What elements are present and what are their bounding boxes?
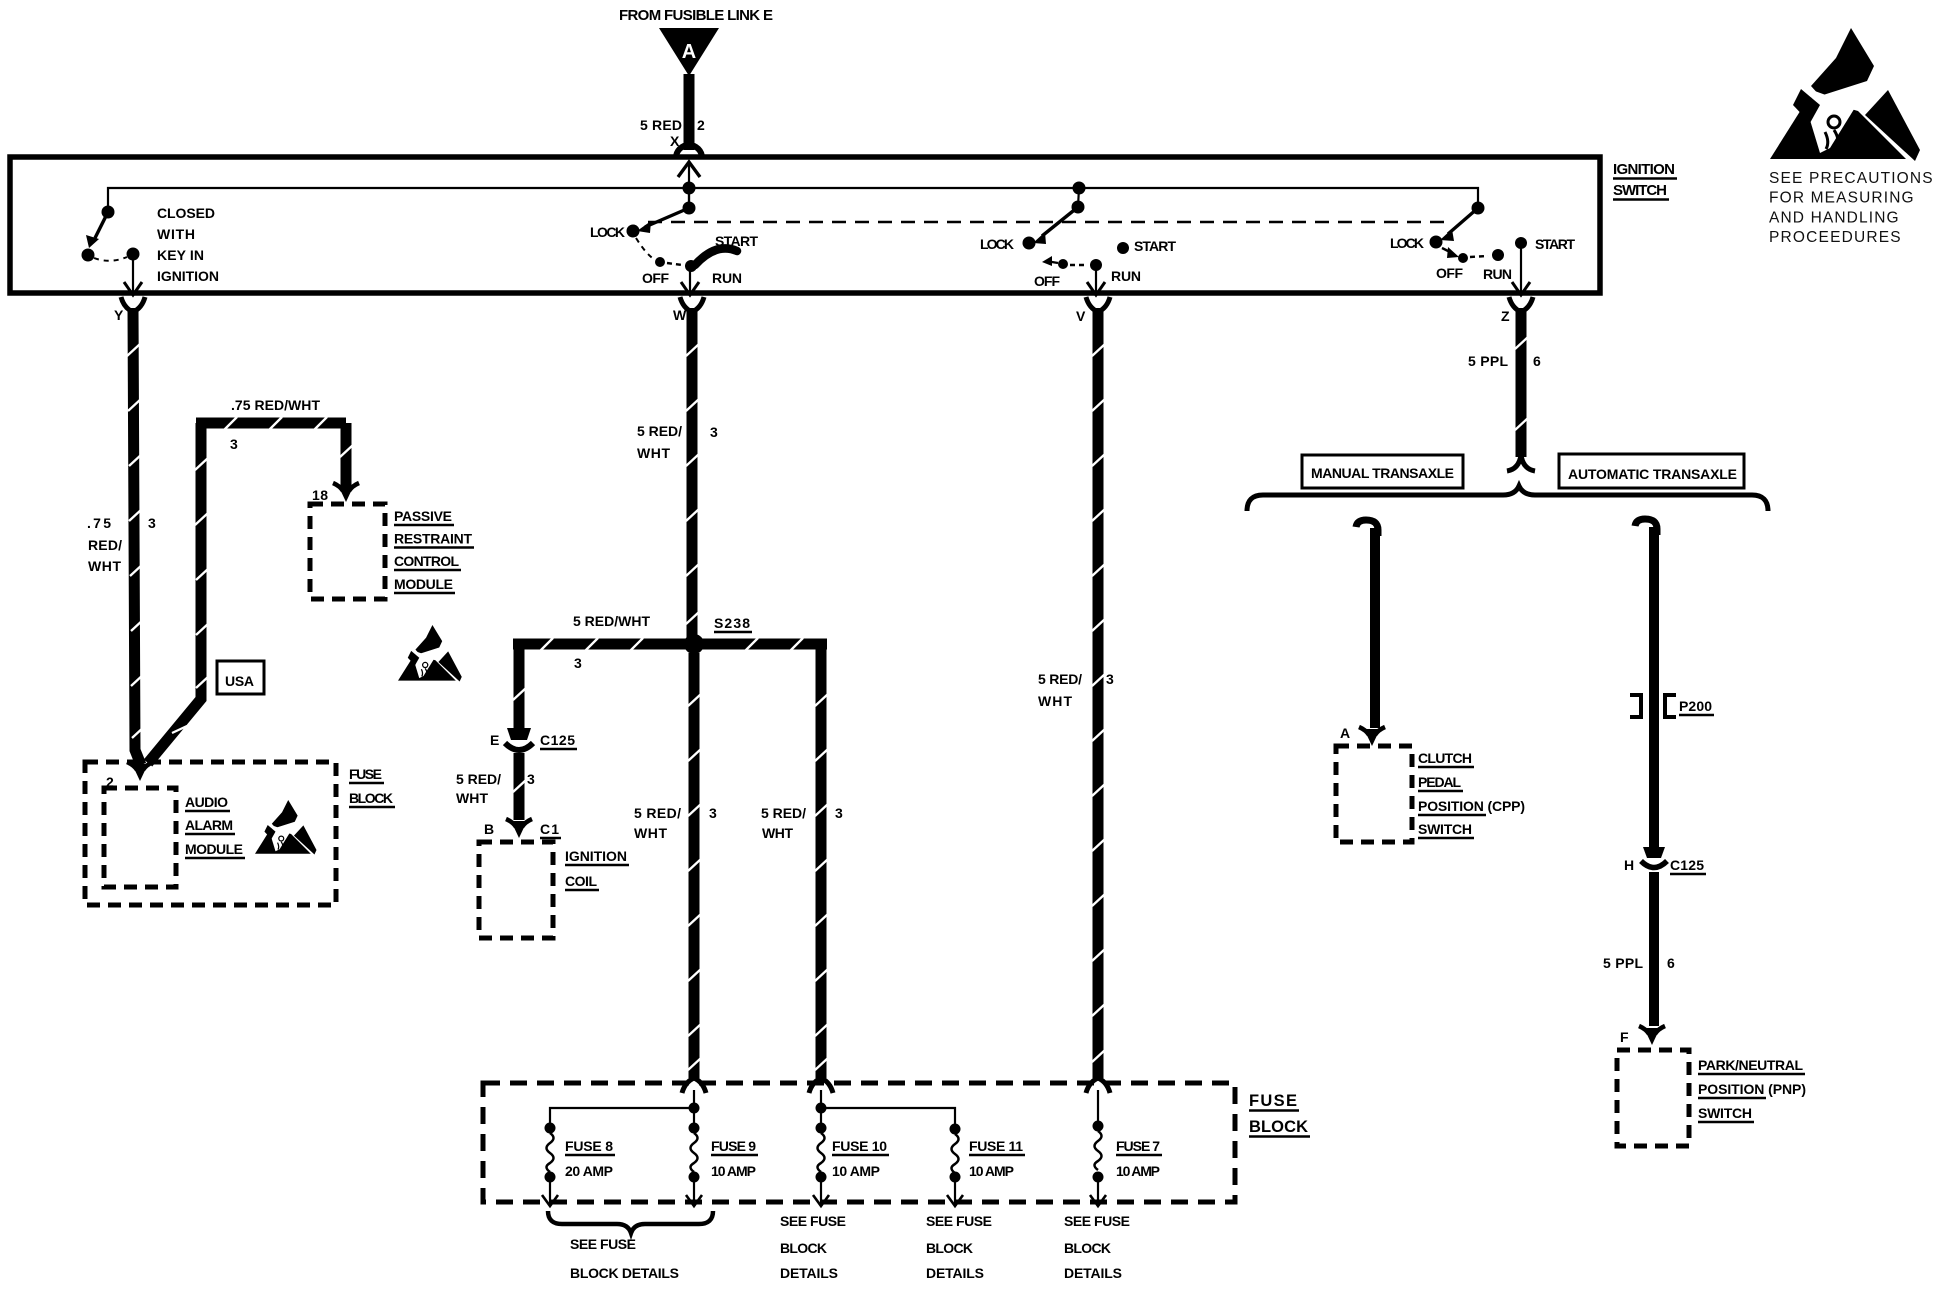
splice S238 bbox=[684, 634, 704, 654]
fuse F9 bbox=[686, 1123, 702, 1207]
fuse F11 bbox=[947, 1124, 963, 1207]
node: fuse 9 feed junction bbox=[689, 1103, 700, 1114]
fuse block label (audio alarm area) bbox=[349, 766, 395, 807]
audio alarm module label bbox=[185, 794, 245, 858]
svg-text:WHT: WHT bbox=[762, 825, 793, 841]
USA variant box label bbox=[217, 661, 264, 694]
svg-text:DETAILS: DETAILS bbox=[780, 1265, 838, 1281]
svg-text:IGNITION: IGNITION bbox=[565, 848, 627, 864]
LOCK contact dot bbox=[627, 225, 640, 238]
RUN contact dot bbox=[685, 260, 697, 272]
wire segment to connector E bbox=[513, 644, 526, 728]
audio alarm module inner dashed box bbox=[104, 788, 176, 887]
svg-text:FUSE 11: FUSE 11 bbox=[969, 1138, 1023, 1154]
svg-text:H: H bbox=[1624, 857, 1634, 873]
OFF contact dot bbox=[655, 257, 665, 267]
svg-text:AUDIO: AUDIO bbox=[185, 794, 228, 810]
svg-text:RESTRAINT: RESTRAINT bbox=[394, 531, 472, 547]
fuse block label bbox=[1249, 1092, 1310, 1137]
dashed wiper path bbox=[94, 257, 127, 261]
svg-text:AUTOMATIC TRANSAXLE: AUTOMATIC TRANSAXLE bbox=[1568, 466, 1737, 482]
node: V feed junction bbox=[1073, 182, 1086, 195]
svg-text:.75: .75 bbox=[87, 515, 111, 531]
svg-text:MODULE: MODULE bbox=[394, 576, 453, 592]
svg-text:S238: S238 bbox=[714, 615, 750, 631]
svg-text:PASSIVE: PASSIVE bbox=[394, 508, 452, 524]
terminal into fuse block from V bbox=[1086, 1078, 1110, 1093]
terminal into fuse block from W bbox=[682, 1078, 706, 1093]
switch output contact dot bbox=[127, 248, 140, 261]
wiper tail LOCK to OFF bbox=[1442, 248, 1452, 253]
svg-text:5 RED: 5 RED bbox=[640, 117, 682, 133]
fuse block dashed box bbox=[483, 1083, 1235, 1202]
switch contact dot left bbox=[102, 206, 115, 219]
LOCK contact dot bbox=[1430, 236, 1443, 249]
svg-text:RUN: RUN bbox=[1483, 266, 1512, 282]
svg-text:BLOCK: BLOCK bbox=[349, 790, 393, 806]
svg-text:3: 3 bbox=[574, 655, 582, 671]
svg-text:BLOCK DETAILS: BLOCK DETAILS bbox=[570, 1265, 679, 1281]
connector P200 pass-through bbox=[1630, 695, 1676, 717]
svg-text:FROM FUSIBLE LINK E: FROM FUSIBLE LINK E bbox=[619, 7, 773, 24]
svg-text:FUSE 7: FUSE 7 bbox=[1116, 1138, 1160, 1154]
svg-text:5 RED/: 5 RED/ bbox=[456, 771, 501, 787]
svg-text:BLOCK: BLOCK bbox=[1249, 1118, 1308, 1136]
svg-text:SEE FUSE: SEE FUSE bbox=[570, 1236, 636, 1252]
ESD warning symbol (large) bbox=[1770, 28, 1920, 161]
wire USA branch .75 RED/WHT bbox=[148, 417, 353, 763]
svg-text:AND HANDLING: AND HANDLING bbox=[1769, 209, 1899, 226]
svg-text:MODULE: MODULE bbox=[185, 841, 243, 857]
wire Z 5 PPL bbox=[1507, 308, 1535, 471]
svg-text:FUSE 8: FUSE 8 bbox=[565, 1138, 613, 1154]
fuse block outer dashed box (audio alarm area) bbox=[85, 762, 336, 905]
svg-text:RUN: RUN bbox=[712, 270, 742, 286]
pin B arrow into ignition coil bbox=[506, 819, 532, 838]
svg-text:P200: P200 bbox=[1679, 698, 1712, 714]
node: Z pivot bbox=[1472, 202, 1485, 215]
switch arm to LOCK bbox=[1042, 207, 1078, 236]
svg-text:RUN: RUN bbox=[1111, 268, 1141, 284]
clutch pedal position switch label bbox=[1418, 750, 1525, 838]
ignition switch pole W (run) bbox=[590, 188, 758, 295]
feed bus wire from X bbox=[108, 188, 1478, 212]
dashed link OFF to RUN bbox=[667, 263, 682, 265]
node: fuse 10 feed junction bbox=[816, 1103, 827, 1114]
fuse F7 label 10 AMP bbox=[1116, 1138, 1162, 1179]
svg-text:POSITION (CPP): POSITION (CPP) bbox=[1418, 798, 1525, 814]
ignition switch pole V (run) bbox=[980, 182, 1176, 296]
svg-text:20 AMP: 20 AMP bbox=[565, 1163, 613, 1179]
wire W upper 5 RED/WHT bbox=[686, 308, 699, 640]
terminal Z bbox=[1509, 297, 1533, 312]
svg-text:10 AMP: 10 AMP bbox=[832, 1163, 880, 1179]
node: W pivot bbox=[683, 202, 696, 215]
park/neutral position switch box bbox=[1617, 1050, 1689, 1146]
svg-text:OFF: OFF bbox=[1436, 265, 1463, 281]
svg-text:POSITION (PNP): POSITION (PNP) bbox=[1698, 1081, 1806, 1097]
manual transaxle label box bbox=[1302, 455, 1463, 488]
svg-text:START: START bbox=[715, 233, 758, 249]
switch arm bbox=[95, 212, 108, 238]
wire Y .75 RED/WHT bbox=[127, 308, 145, 765]
park/neutral position switch label bbox=[1698, 1057, 1806, 1122]
switch arm to LOCK bbox=[1448, 208, 1478, 234]
branch wire to fuse 8 bbox=[550, 1108, 694, 1128]
ESD warning symbol (small, near USA) bbox=[398, 625, 462, 682]
svg-text:WHT: WHT bbox=[1038, 693, 1072, 709]
wire V 5 RED/WHT to fuse block bbox=[1092, 308, 1105, 1078]
svg-text:5 RED/: 5 RED/ bbox=[1038, 671, 1082, 687]
START contact dot bbox=[1515, 237, 1527, 249]
svg-text:FOR MEASURING: FOR MEASURING bbox=[1769, 190, 1914, 207]
svg-text:PROCEEDURES: PROCEEDURES bbox=[1769, 229, 1901, 246]
svg-text:LOCK: LOCK bbox=[980, 236, 1014, 252]
output line to terminal Y bbox=[132, 254, 134, 291]
svg-text:WHT: WHT bbox=[456, 790, 488, 806]
pin 2 arrow into audio alarm module bbox=[127, 762, 153, 781]
wire from A to terminal X bbox=[684, 74, 695, 150]
connector C125 terminal E bbox=[505, 728, 533, 750]
ignition switch pole Z (start) bbox=[1390, 202, 1575, 296]
wire automatic branch lower 5 PPL bbox=[1649, 872, 1659, 1026]
svg-text:5 RED/WHT: 5 RED/WHT bbox=[573, 613, 650, 629]
svg-text:CLOSED: CLOSED bbox=[157, 205, 215, 221]
svg-text:IGNITION: IGNITION bbox=[1613, 161, 1675, 178]
pin 18 arrow into passive restraint module bbox=[333, 483, 359, 502]
fuse F11 label 10 AMP bbox=[969, 1138, 1025, 1179]
RUN contact dot bbox=[1492, 249, 1504, 261]
svg-text:PEDAL: PEDAL bbox=[1418, 774, 1461, 790]
svg-text:A: A bbox=[1340, 725, 1350, 741]
dashed lock bus wire bbox=[648, 221, 1448, 223]
svg-text:10 AMP: 10 AMP bbox=[1116, 1163, 1160, 1179]
switch moving contact dot bbox=[82, 249, 95, 262]
svg-text:PARK/NEUTRAL: PARK/NEUTRAL bbox=[1698, 1057, 1803, 1073]
svg-text:10 AMP: 10 AMP bbox=[711, 1163, 756, 1179]
svg-text:C1: C1 bbox=[540, 821, 559, 837]
OFF contact dot bbox=[1458, 253, 1468, 263]
wire automatic transaxle branch upper bbox=[1635, 519, 1657, 849]
svg-text:C125: C125 bbox=[1670, 857, 1704, 873]
svg-text:FUSE: FUSE bbox=[1249, 1092, 1297, 1110]
svg-text:LOCK: LOCK bbox=[590, 224, 625, 240]
fuse F7 bbox=[1090, 1121, 1106, 1207]
svg-text:18: 18 bbox=[312, 487, 328, 503]
fuse F10 label 10 AMP bbox=[832, 1138, 889, 1179]
switch arm to LOCK bbox=[645, 208, 689, 227]
ignition switch label bbox=[1613, 161, 1677, 200]
svg-text:B: B bbox=[484, 821, 494, 837]
svg-text:WHT: WHT bbox=[637, 445, 670, 461]
svg-text:W: W bbox=[673, 307, 687, 323]
svg-text:SWITCH: SWITCH bbox=[1698, 1105, 1752, 1121]
fuse F8 label 20 AMP bbox=[565, 1138, 615, 1179]
wiper arc to START bbox=[695, 248, 737, 265]
svg-text:ALARM: ALARM bbox=[185, 817, 233, 833]
terminal Y bbox=[121, 297, 145, 312]
svg-text:FUSE 9: FUSE 9 bbox=[711, 1138, 756, 1154]
svg-text:V: V bbox=[1076, 308, 1086, 324]
svg-text:3: 3 bbox=[835, 805, 843, 821]
wire W lower 5 RED/WHT to fuse block bbox=[688, 653, 701, 1078]
svg-text:Z: Z bbox=[1501, 308, 1510, 324]
wire segment E to B 5 RED/WHT bbox=[513, 753, 526, 820]
svg-text:IGNITION: IGNITION bbox=[157, 268, 219, 284]
RUN contact dot bbox=[1090, 259, 1102, 271]
svg-text:SEE PRECAUTIONS: SEE PRECAUTIONS bbox=[1769, 170, 1933, 187]
brace under fuse 8 and 9 bbox=[548, 1211, 713, 1233]
svg-text:E: E bbox=[490, 732, 499, 748]
svg-text:OFF: OFF bbox=[642, 270, 669, 286]
svg-text:OFF: OFF bbox=[1034, 273, 1060, 289]
svg-text:RED/: RED/ bbox=[88, 537, 122, 553]
OFF contact dot with tail bbox=[1046, 261, 1058, 263]
branch wire to fuse 11 bbox=[821, 1108, 955, 1129]
svg-text:SEE FUSE: SEE FUSE bbox=[780, 1213, 846, 1229]
terminal into fuse block from splice branch bbox=[809, 1078, 833, 1093]
fuse F10 bbox=[813, 1123, 829, 1207]
ignition switch box bbox=[10, 157, 1600, 293]
svg-text:5 RED/: 5 RED/ bbox=[637, 423, 682, 439]
terminal X male pin arrow bbox=[678, 162, 700, 177]
connector C125 terminal H bbox=[1641, 847, 1667, 868]
dashed link OFF to RUN bbox=[1470, 256, 1488, 257]
svg-text:BLOCK: BLOCK bbox=[1064, 1240, 1111, 1256]
transaxle selection brace bbox=[1247, 486, 1768, 511]
svg-text:BLOCK: BLOCK bbox=[780, 1240, 827, 1256]
key-in warning switch (closed with key in ignition) bbox=[82, 205, 220, 295]
output line to terminal W bbox=[689, 266, 691, 291]
svg-text:KEY IN: KEY IN bbox=[157, 247, 204, 263]
svg-text:SEE FUSE: SEE FUSE bbox=[1064, 1213, 1130, 1229]
terminal W bbox=[680, 297, 704, 312]
passive restraint control module label bbox=[394, 508, 474, 593]
wire manual transaxle branch bbox=[1356, 520, 1378, 728]
dashed link OFF to RUN bbox=[1070, 264, 1088, 266]
svg-text:C125: C125 bbox=[540, 732, 575, 748]
svg-text:SWITCH: SWITCH bbox=[1613, 182, 1667, 199]
dashed wiper path LOCK to OFF bbox=[636, 238, 656, 260]
ESD warning symbol (small, in audio alarm module) bbox=[255, 800, 317, 855]
svg-text:DETAILS: DETAILS bbox=[926, 1265, 984, 1281]
splice horizontal wire 5 RED/WHT bbox=[513, 638, 827, 651]
START contact dot bbox=[1117, 242, 1129, 254]
svg-text:DETAILS: DETAILS bbox=[1064, 1265, 1122, 1281]
svg-text:3: 3 bbox=[148, 515, 156, 531]
svg-text:2: 2 bbox=[697, 117, 705, 133]
fusible link connector triangle A bbox=[659, 28, 719, 76]
svg-text:.75 RED/WHT: .75 RED/WHT bbox=[231, 397, 320, 413]
svg-text:5 RED/: 5 RED/ bbox=[634, 805, 681, 821]
svg-text:10 AMP: 10 AMP bbox=[969, 1163, 1014, 1179]
LOCK contact dot bbox=[1023, 237, 1036, 250]
fuse F8 bbox=[542, 1123, 558, 1207]
wire splice right branch 5 RED/WHT to fuse block bbox=[815, 644, 828, 1078]
svg-text:USA: USA bbox=[225, 673, 254, 689]
output line to terminal Z bbox=[1520, 243, 1522, 291]
passive restraint control module box bbox=[310, 504, 385, 599]
svg-text:3: 3 bbox=[710, 424, 718, 440]
ignition coil box bbox=[479, 842, 553, 938]
svg-text:WHT: WHT bbox=[634, 825, 667, 841]
svg-text:SEE FUSE: SEE FUSE bbox=[926, 1213, 992, 1229]
svg-text:3: 3 bbox=[1106, 671, 1114, 687]
svg-text:BLOCK: BLOCK bbox=[926, 1240, 973, 1256]
svg-text:START: START bbox=[1535, 236, 1575, 252]
svg-text:A: A bbox=[682, 41, 696, 63]
svg-text:6: 6 bbox=[1533, 353, 1541, 369]
svg-text:SWITCH: SWITCH bbox=[1418, 821, 1472, 837]
svg-text:6: 6 bbox=[1667, 955, 1675, 971]
svg-text:3: 3 bbox=[527, 771, 535, 787]
svg-text:CLUTCH: CLUTCH bbox=[1418, 750, 1472, 766]
svg-text:3: 3 bbox=[709, 805, 717, 821]
svg-text:5 PPL: 5 PPL bbox=[1603, 955, 1643, 971]
svg-text:Y: Y bbox=[114, 307, 124, 323]
node: X feed junction bbox=[683, 182, 696, 195]
svg-text:COIL: COIL bbox=[565, 873, 597, 889]
terminal V bbox=[1086, 297, 1110, 312]
svg-text:FUSE 10: FUSE 10 bbox=[832, 1138, 887, 1154]
svg-text:3: 3 bbox=[230, 436, 238, 452]
svg-text:CONTROL: CONTROL bbox=[394, 553, 459, 569]
svg-text:WITH: WITH bbox=[157, 226, 195, 242]
ignition coil label bbox=[565, 848, 629, 890]
svg-text:5 PPL: 5 PPL bbox=[1468, 353, 1508, 369]
pin F arrow into PNP switch bbox=[1639, 1026, 1665, 1045]
svg-text:MANUAL TRANSAXLE: MANUAL TRANSAXLE bbox=[1311, 465, 1454, 481]
pin A arrow into CPP switch bbox=[1359, 727, 1385, 746]
svg-text:LOCK: LOCK bbox=[1390, 235, 1424, 251]
output line to terminal V bbox=[1095, 265, 1097, 291]
node: V pivot bbox=[1072, 201, 1085, 214]
clutch pedal position switch box bbox=[1336, 746, 1412, 842]
fuse F9 label 10 AMP bbox=[711, 1138, 758, 1179]
ESD precaution text bbox=[1769, 170, 1933, 246]
automatic transaxle label box bbox=[1559, 454, 1744, 488]
svg-text:FUSE: FUSE bbox=[349, 766, 382, 782]
svg-text:5 RED/: 5 RED/ bbox=[761, 805, 806, 821]
svg-text:START: START bbox=[1134, 238, 1176, 254]
svg-text:WHT: WHT bbox=[88, 558, 121, 574]
terminal X ring connector bbox=[676, 145, 702, 158]
svg-text:F: F bbox=[1620, 1029, 1629, 1045]
